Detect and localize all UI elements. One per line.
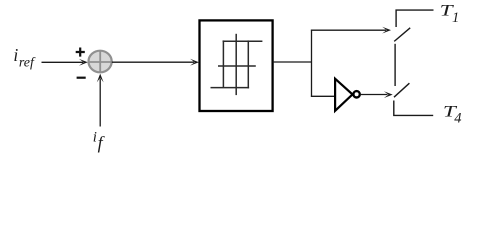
wire inverter to switch T4 [360,91,393,98]
relay block (hysteresis comparator) [200,20,273,111]
summing junction [89,51,112,73]
inverter (NOT gate) [335,79,360,111]
wire relay output to branch node [273,61,312,63]
branch node vertical [311,30,313,97]
switch T1 [394,10,433,41]
wire branch node to inverter [311,95,334,97]
wire branch node to switch T1 [311,27,391,34]
wire summing junction to relay [112,59,199,66]
plus sign [76,48,85,57]
minus sign [77,77,86,79]
wire switch T1 to switch T4 (phase leg) [394,44,396,86]
svg-text:4: 4 [454,110,461,126]
svg-text:iref: iref [13,45,36,70]
svg-text:1: 1 [452,10,459,26]
switch T4 [394,83,433,115]
hysteresis symbol [211,34,263,95]
svg-text:if: if [93,130,106,153]
wire i_ref to summing junction [42,59,88,66]
wire i_f to summing junction [97,74,104,127]
